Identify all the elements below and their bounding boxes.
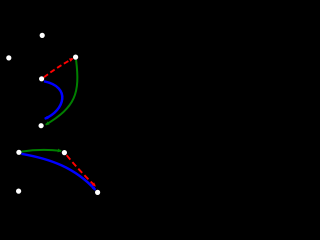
node D: [39, 76, 44, 81]
node G: [62, 150, 67, 155]
edge D to E (blue arrow): [44, 81, 62, 119]
node E: [39, 123, 44, 128]
node F: [16, 150, 21, 155]
node B: [6, 55, 11, 60]
edge F to G (green arrow): [22, 149, 62, 153]
node H: [16, 189, 21, 194]
node C: [73, 55, 78, 60]
edge F to I (blue arrow): [21, 154, 96, 191]
node I: [95, 190, 100, 195]
edge D to C (red dashed arrow): [44, 58, 74, 77]
edge G to I (red dashed arrow): [67, 155, 96, 186]
edge C to E (green arrow): [45, 60, 77, 125]
node A: [40, 33, 45, 38]
